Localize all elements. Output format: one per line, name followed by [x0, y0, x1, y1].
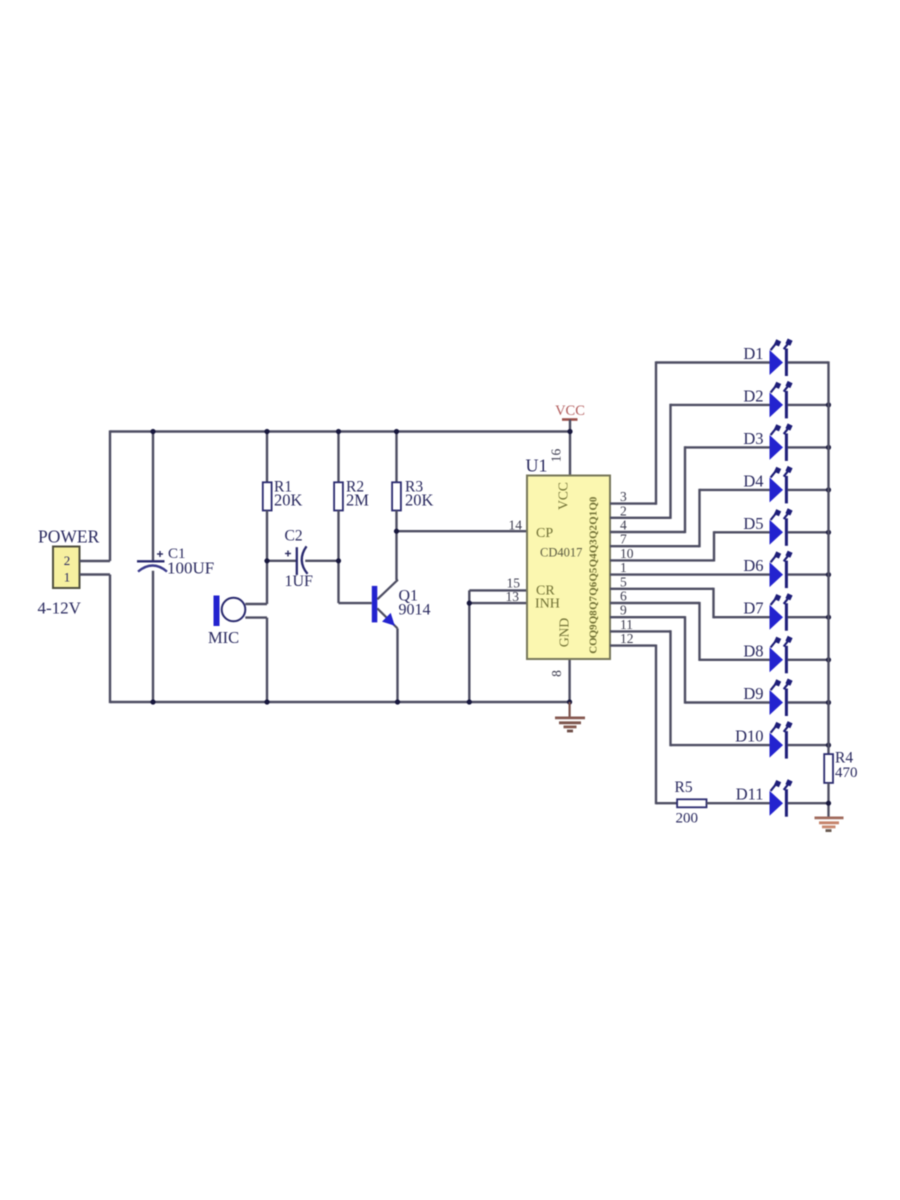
svg-text:3: 3: [620, 489, 627, 504]
svg-text:R5: R5: [675, 779, 693, 796]
wire U1 pin 11 route: [610, 630, 671, 632]
svg-text:D10: D10: [735, 727, 763, 746]
junction Q1 emitter ground: [395, 699, 400, 704]
wire top rail: [110, 430, 570, 432]
wire U1 pin 10 to LED: [610, 559, 714, 561]
junction C2 left: [264, 558, 269, 563]
svg-text:R4: R4: [835, 750, 853, 767]
junction D2 rail: [826, 402, 831, 407]
junction VCC: [567, 429, 572, 434]
svg-text:20K: 20K: [405, 491, 434, 510]
svg-text:8: 8: [549, 670, 564, 677]
svg-text:1: 1: [620, 560, 627, 575]
resistor R4: [824, 754, 833, 783]
resistor R2: [337, 432, 339, 483]
svg-text:Q5: Q5: [588, 568, 600, 582]
junction D11 ground: [826, 801, 831, 806]
svg-text:1UF: 1UF: [285, 573, 314, 590]
wire MIC bottom terminal: [245, 616, 267, 618]
wire D3 cathode: [788, 446, 829, 448]
wire bottom rail: [110, 701, 570, 703]
svg-text:12: 12: [620, 631, 634, 646]
svg-text:D7: D7: [743, 599, 763, 618]
resistor R5: [656, 802, 677, 804]
wire pin1 stub: [80, 573, 111, 575]
junction D10 rail: [826, 743, 831, 748]
wire D10 cathode: [788, 744, 829, 746]
svg-text:2M: 2M: [346, 491, 369, 510]
svg-text:14: 14: [509, 518, 523, 533]
svg-text:Q0: Q0: [588, 497, 600, 511]
wire D8 cathode: [788, 659, 829, 661]
wire U1 pin 3 to LED: [610, 502, 656, 504]
svg-text:D2: D2: [743, 386, 763, 405]
svg-text:4-12V: 4-12V: [38, 599, 82, 618]
svg-text:9014: 9014: [399, 602, 431, 619]
svg-text:100UF: 100UF: [167, 559, 214, 578]
svg-text:CD4017: CD4017: [540, 546, 582, 560]
junction CP tap: [394, 529, 399, 534]
svg-text:Q2: Q2: [588, 525, 600, 539]
svg-text:Q7: Q7: [588, 596, 600, 610]
junction D8 rail: [826, 657, 831, 662]
svg-text:INH: INH: [535, 597, 560, 612]
svg-text:11: 11: [620, 617, 633, 632]
junction D9 rail: [826, 700, 831, 705]
junction D4 rail: [826, 487, 831, 492]
svg-text:16: 16: [549, 449, 564, 463]
wire D4 cathode: [788, 489, 829, 491]
connector J1 POWER: [53, 547, 80, 589]
wire U1 pin 6 route: [610, 602, 700, 604]
LED D5: [770, 508, 793, 545]
LED D8: [770, 636, 793, 673]
svg-text:9: 9: [620, 603, 627, 618]
LED D7: [770, 593, 793, 630]
junction R1 top: [264, 429, 269, 434]
svg-text:7: 7: [620, 532, 627, 547]
junction C1 top: [150, 429, 155, 434]
wire D1 cathode: [788, 361, 829, 363]
transistor Q1 9014: [339, 602, 372, 604]
wire U1 pin 4 to LED: [610, 531, 685, 533]
svg-text:1: 1: [64, 570, 71, 585]
LED D11: [770, 779, 793, 816]
svg-text:CO: CO: [588, 637, 600, 653]
wire MIC top terminal: [245, 603, 267, 605]
capacitor C1: [152, 432, 154, 562]
LED D10: [770, 721, 793, 758]
wire LED common rail: [827, 361, 829, 754]
wire U1 pin 1 to LED D6: [610, 573, 770, 575]
junction R3 top: [394, 429, 399, 434]
svg-text:2: 2: [64, 553, 71, 568]
microphone MIC: [222, 598, 246, 622]
junction D5 rail: [826, 530, 831, 535]
svg-text:Q6: Q6: [588, 581, 600, 595]
svg-text:10: 10: [620, 546, 634, 561]
junction C2 right: [336, 558, 341, 563]
wire D9 cathode: [788, 701, 829, 703]
junction INH ground: [467, 699, 472, 704]
svg-text:Q3: Q3: [588, 539, 600, 553]
wire U1 pin 12 route: [610, 644, 656, 646]
svg-text:D8: D8: [743, 641, 763, 660]
wire left rail upper: [109, 430, 111, 561]
svg-text:Q1: Q1: [588, 511, 600, 525]
svg-text:6: 6: [620, 589, 627, 604]
svg-text:U1: U1: [526, 456, 548, 476]
junction U1 ground: [567, 699, 572, 704]
wire R4 to ground: [827, 783, 829, 817]
LED D2: [770, 381, 793, 418]
wire U1 pin 2 to LED: [610, 517, 671, 519]
svg-text:D3: D3: [743, 429, 763, 448]
junction D6 rail: [826, 572, 831, 577]
svg-text:2: 2: [620, 503, 627, 518]
svg-text:200: 200: [676, 811, 699, 827]
resistor R3: [395, 432, 397, 483]
svg-text:MIC: MIC: [208, 628, 239, 647]
wire U1 pin 7 to LED: [610, 545, 700, 547]
wire U1 pins 15 13 tie: [469, 589, 527, 591]
svg-text:GND: GND: [557, 618, 572, 647]
capacitor C2: [267, 560, 296, 562]
svg-text:5: 5: [620, 574, 627, 589]
svg-text:VCC: VCC: [556, 482, 571, 510]
svg-text:D9: D9: [743, 684, 763, 703]
LED D1: [770, 339, 793, 376]
svg-text:Q9: Q9: [588, 624, 600, 638]
wire U1 pin 9 route: [610, 616, 685, 618]
wire D11 cathode: [788, 802, 829, 804]
LED D6: [770, 551, 793, 588]
svg-text:D4: D4: [743, 471, 763, 490]
wire U1 GND pin to rail: [568, 659, 570, 702]
svg-text:CP: CP: [536, 526, 553, 541]
LED D3: [770, 423, 793, 460]
svg-text:470: 470: [835, 765, 858, 781]
LED D9: [770, 679, 793, 716]
svg-text:D6: D6: [743, 556, 763, 575]
svg-text:Q8: Q8: [588, 610, 600, 624]
wire CP to U1 pin 14: [397, 530, 528, 532]
svg-text:VCC: VCC: [555, 403, 585, 419]
svg-text:D5: D5: [743, 514, 763, 533]
wire pin2 stub: [80, 560, 111, 562]
junction R2 top: [336, 429, 341, 434]
resistor R1: [266, 432, 268, 483]
ground under U1: [568, 702, 570, 717]
wire left rail lower: [109, 575, 111, 704]
junction INH: [467, 601, 472, 606]
svg-text:Q4: Q4: [588, 553, 600, 567]
svg-text:C2: C2: [285, 528, 303, 545]
op IC U1 CD4017: [527, 476, 610, 660]
svg-text:D1: D1: [743, 344, 763, 363]
svg-text:4: 4: [620, 518, 627, 533]
wire D5 cathode: [788, 531, 829, 533]
junction D3 rail: [826, 445, 831, 450]
svg-text:20K: 20K: [274, 491, 303, 510]
ground bottom right: [815, 817, 844, 820]
LED D4: [770, 466, 793, 503]
svg-text:D11: D11: [736, 785, 764, 804]
junction C1 bottom: [150, 699, 155, 704]
wire D2 cathode: [788, 404, 829, 406]
wire D7 cathode: [788, 616, 829, 618]
junction D7 rail: [826, 615, 831, 620]
wire D6 cathode: [788, 573, 829, 575]
svg-text:13: 13: [506, 589, 520, 604]
junction MIC ground: [264, 699, 269, 704]
wire U1 pin 5 route: [610, 588, 714, 590]
svg-text:POWER: POWER: [38, 527, 100, 547]
